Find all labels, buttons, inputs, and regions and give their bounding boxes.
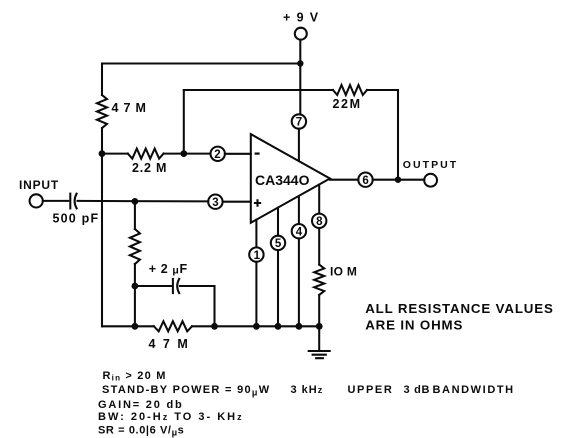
svg-text:4 7 M: 4 7 M — [112, 101, 147, 115]
pin 4 circle — [292, 224, 306, 238]
node: feedback junction — [180, 150, 187, 157]
svg-text:6: 6 — [362, 175, 368, 187]
wire: pin 5 down to bottom rail — [277, 250, 279, 326]
OUTPUT terminal — [424, 174, 437, 187]
op-amp minus sign — [255, 153, 260, 155]
op-amp plus sign — [254, 199, 261, 206]
wire: ground stem — [318, 326, 320, 351]
wire: pin 4 down to bottom rail — [298, 238, 300, 326]
node: +9V / top rail junction — [297, 60, 303, 66]
node: ground junction — [316, 323, 323, 330]
svg-text:7: 7 — [296, 117, 302, 129]
svg-text:3 kHz: 3 kHz — [291, 384, 324, 396]
pin 8 circle — [312, 214, 326, 228]
resistor 2.2M — [128, 149, 164, 159]
node: pin 1 at bottom rail — [253, 323, 260, 330]
wire: pin 1 down to bottom rail — [255, 262, 257, 327]
wire: 10M to bottom rail — [318, 295, 320, 326]
svg-text:+ 2 μF: + 2 μF — [149, 262, 188, 277]
op-amp U1 CA3440 triangle — [251, 134, 330, 223]
wire: pin 6 to output terminal — [373, 179, 425, 181]
capacitor +2uF — [172, 279, 174, 293]
wire: 47M bottom lead — [101, 128, 103, 154]
pin 2 circle — [211, 147, 225, 161]
wire: branch down to resistor — [134, 201, 136, 229]
wire: 2uF left lead — [135, 285, 171, 287]
pin 7 circle — [292, 114, 306, 128]
svg-text:UPPER: UPPER — [348, 384, 394, 396]
svg-text:STAND-BY POWER = 90μW: STAND-BY POWER = 90μW — [102, 384, 270, 398]
node: input branch junction — [132, 198, 139, 205]
wire: 2.2M left lead — [102, 153, 128, 155]
svg-text:5: 5 — [275, 238, 282, 250]
wire: pin 5 from op-amp edge — [277, 208, 279, 236]
wire: left rail top lead — [101, 64, 103, 96]
resistor 10M — [314, 265, 324, 295]
node: 2uF return at bottom rail — [211, 323, 218, 330]
wire: top rail — [102, 62, 300, 64]
svg-text:500 pF: 500 pF — [53, 211, 100, 225]
wire: 22M right lead — [367, 89, 398, 91]
svg-text:SR = 0.0|6 V/μs: SR = 0.0|6 V/μs — [98, 425, 184, 438]
ground symbol — [309, 351, 330, 358]
resistor (unlabeled, input branch) — [130, 229, 140, 264]
wire: feedback right vertical down to output node — [397, 90, 399, 180]
wire: +9V vertical down to pin 7 — [299, 40, 301, 115]
wire: 2.2M right lead to pin 2 — [164, 153, 211, 155]
svg-text:3: 3 — [212, 197, 218, 209]
node: pin 4 at bottom rail — [296, 323, 303, 330]
wire: pin 8 from op-amp edge — [318, 185, 320, 214]
wire: pin 8 down to 10M — [318, 228, 320, 265]
wire: node down to bottom rail — [134, 286, 136, 326]
wire: pin 2 to op-amp — [225, 153, 251, 155]
wire: resistor to 2uF node — [134, 264, 136, 286]
wire: op-amp output to pin 6 — [330, 179, 358, 181]
resistor 22M — [333, 85, 367, 95]
wire: pin 7 to op-amp top edge — [298, 129, 300, 161]
svg-text:22M: 22M — [333, 97, 362, 111]
node: pin 5 at bottom rail — [275, 323, 282, 330]
resistor 47M (top left) — [97, 95, 107, 128]
svg-text:2: 2 — [214, 149, 220, 161]
resistor 47M (bottom) — [154, 321, 192, 331]
pin 5 circle — [271, 236, 285, 250]
svg-text:4: 4 — [296, 226, 303, 238]
pin 1 circle — [249, 247, 263, 261]
svg-text:3 dB: 3 dB — [404, 384, 431, 396]
wire: pin 1 from op-amp edge — [255, 220, 257, 248]
wire: feedback top horizontal to 22M — [184, 89, 333, 91]
svg-text:4 7 M: 4 7 M — [149, 337, 190, 351]
svg-text:IO M: IO M — [330, 265, 357, 279]
pin 3 circle — [208, 195, 222, 209]
wire: input to 500pF — [43, 200, 69, 202]
wire: feedback vertical up — [183, 90, 185, 154]
svg-text:8: 8 — [316, 216, 323, 228]
svg-text:ALL RESISTANCE VALUES: ALL RESISTANCE VALUES — [365, 301, 554, 316]
pin 6 circle — [358, 173, 372, 187]
INPUT terminal — [30, 194, 43, 207]
bottom rail left segment — [102, 325, 154, 327]
wire: 500pF to pin 3 — [78, 200, 209, 203]
svg-text:BW: 20-Hz TO 3- KHz: BW: 20-Hz TO 3- KHz — [98, 411, 244, 423]
node: 47M / 2.2M junction — [99, 150, 106, 157]
bottom rail right segment — [192, 325, 319, 327]
wire: 2uF right lead and down — [180, 286, 215, 326]
node: branch at bottom rail — [132, 323, 139, 330]
wire: left rail down to bottom wire — [101, 154, 103, 327]
svg-text:INPUT: INPUT — [19, 178, 59, 192]
svg-text:OUTPUT: OUTPUT — [403, 159, 458, 171]
wire: pin 3 to op-amp — [223, 201, 251, 203]
capacitor 500pF — [69, 194, 71, 209]
svg-text:ARE IN OHMS: ARE IN OHMS — [365, 317, 463, 332]
svg-text:GAIN= 20 db: GAIN= 20 db — [98, 399, 184, 411]
node: 2uF junction — [132, 283, 139, 290]
node: output junction — [395, 177, 401, 183]
wire: pin 4 from op-amp edge — [298, 196, 300, 224]
svg-text:+ 9 V: + 9 V — [283, 11, 320, 25]
svg-text:CA344O: CA344O — [255, 172, 310, 188]
svg-text:BANDWIDTH: BANDWIDTH — [433, 384, 515, 396]
supply terminal +9V — [295, 28, 307, 40]
svg-text:2.2 M: 2.2 M — [132, 161, 167, 175]
svg-text:1: 1 — [254, 250, 261, 262]
